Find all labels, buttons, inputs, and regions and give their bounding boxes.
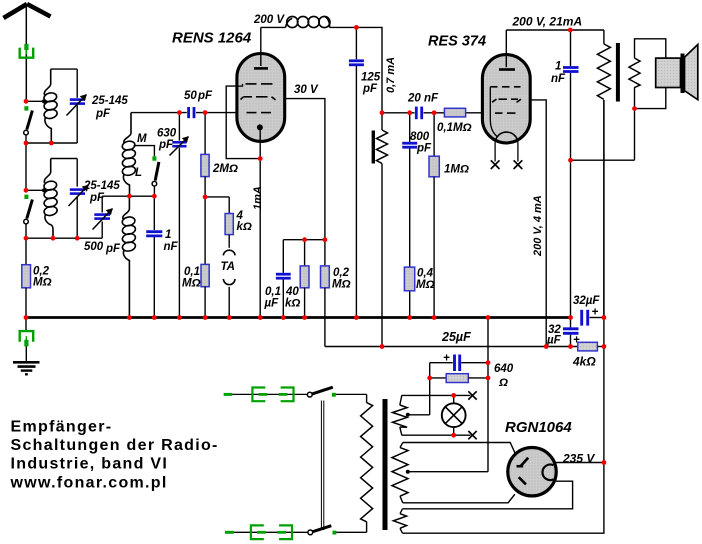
HV winding [400, 443, 403, 448]
switch S2 arm [27, 200, 33, 219]
wire antenna junction to coil1 tap [26, 100, 44, 102]
output transformer core [616, 43, 620, 102]
coil detector secondary [121, 196, 136, 317]
svg-text:4kΩ: 4kΩ [572, 355, 596, 369]
svg-text:pF: pF [105, 243, 121, 255]
tube RGN1064 envelope [508, 448, 556, 496]
svg-text:MΩ: MΩ [332, 279, 351, 291]
RES anode bar [499, 68, 515, 71]
wire bus to ground socket [25, 318, 27, 331]
resistor 0.2Mohm screen [324, 240, 326, 266]
svg-text:200 V: 200 V [253, 14, 285, 26]
mains plug row1 (green) [252, 388, 293, 402]
svg-text:MΩ: MΩ [182, 278, 201, 290]
x mark lamp top [468, 391, 476, 399]
capacitor 125pF [355, 27, 357, 59]
wire secondary top to speaker [635, 39, 666, 58]
wire S3 to node [153, 186, 155, 196]
svg-text:32µF: 32µF [573, 295, 600, 307]
svg-text:20 nF: 20 nF [407, 93, 439, 105]
wire S1 to node [25, 135, 27, 143]
wire 200V rail RENS [261, 26, 286, 28]
svg-text:1: 1 [165, 229, 171, 241]
mains input row1 green stub [224, 393, 233, 396]
node line y196 [102, 195, 154, 197]
wire circuit2 bottom line [26, 237, 102, 239]
RENS cathode lead [259, 130, 261, 318]
resistor 0.1Mohm coupling [444, 108, 465, 117]
svg-text:pF: pF [416, 143, 432, 155]
wire row1 to transformer [336, 393, 367, 395]
svg-text:+: + [592, 307, 599, 319]
svg-text:pF: pF [158, 139, 174, 151]
capacitor 630pF variable [178, 113, 180, 141]
svg-text:kΩ: kΩ [237, 221, 252, 233]
capacitor 500pF [101, 222, 103, 239]
svg-text:nF: nF [164, 241, 179, 253]
HV winding center tap [406, 470, 410, 474]
RES filament legs [494, 143, 496, 162]
wire 1nF down to bus [570, 160, 572, 317]
wire M/L tap [134, 146, 155, 157]
capacitor 0.1uF [282, 240, 284, 273]
lamp bottom line [402, 434, 471, 436]
svg-text:50: 50 [184, 90, 197, 102]
RES grid row C [495, 112, 516, 114]
RENS grid row A [237, 84, 243, 86]
svg-text:200 V, 21mA: 200 V, 21mA [512, 15, 583, 29]
resistor 0.4Mohm [404, 267, 414, 291]
svg-text:kΩ: kΩ [285, 298, 300, 310]
svg-text:1: 1 [555, 61, 561, 73]
svg-text:640: 640 [494, 363, 514, 375]
svg-text:TA: TA [221, 261, 235, 273]
ground socket (green) [20, 331, 34, 346]
tube RENS1264 envelope [237, 54, 285, 142]
tuned circuit 2: top wire [51, 158, 77, 160]
svg-text:25-145: 25-145 [91, 95, 128, 107]
antenna [4, 4, 51, 18]
wire circuit1 bottom [26, 142, 77, 144]
wire resistor to ground bus [25, 288, 27, 318]
node coil2 tap [42, 188, 46, 192]
capacitor 25uF [430, 362, 453, 364]
svg-text:pF: pF [362, 83, 378, 95]
coil M/L [121, 113, 136, 197]
capacitor 1nF output [570, 30, 572, 66]
lamp top line [402, 394, 471, 396]
svg-text:0,1: 0,1 [265, 286, 281, 298]
tube RES374 envelope [482, 55, 530, 143]
RGN anode notch [542, 465, 553, 481]
choke RF [286, 16, 331, 27]
second bus 200V [325, 346, 578, 348]
svg-text:630: 630 [157, 128, 177, 140]
switch S3 contact (green) [152, 156, 156, 160]
wire anode coupling line y112.8 [382, 112, 415, 114]
speaker magnet bar [681, 54, 685, 94]
dial lamp [453, 395, 455, 403]
svg-text:800: 800 [410, 131, 430, 143]
variable capacitor C1 25-145pF [76, 69, 78, 98]
wire RENS screen 30V [285, 99, 325, 240]
coil L2 [43, 159, 58, 239]
antenna socket (green) [20, 44, 34, 58]
x mark filament right [514, 160, 523, 169]
wire bias line x488 [487, 318, 489, 472]
svg-text:µF: µF [264, 298, 280, 310]
power transformer core [383, 399, 388, 530]
svg-text:0,2: 0,2 [333, 267, 350, 279]
switch mains top [307, 392, 312, 397]
resistor 4kohm feed [578, 342, 598, 351]
wire HV bottom to RGN [403, 494, 515, 503]
svg-text:2MΩ: 2MΩ [212, 163, 238, 175]
wire choke to corner [330, 27, 383, 112]
wire TA to bus [228, 287, 230, 318]
svg-text:RENS 1264: RENS 1264 [172, 30, 252, 47]
RENS grid row C [247, 112, 272, 114]
svg-text:MΩ: MΩ [33, 277, 52, 289]
x mark filament left [491, 160, 500, 169]
svg-text:M: M [137, 133, 147, 145]
wire link y160 [571, 159, 635, 161]
RENS anode lead [260, 27, 262, 66]
capacitor 20nF [416, 107, 421, 120]
node coil1 tap [42, 99, 46, 103]
resistor 40kohm [304, 240, 306, 266]
RES anode lead [505, 30, 507, 67]
switch mains bottom [308, 530, 313, 535]
filament winding [400, 509, 403, 514]
mains input row2 green stub [225, 531, 234, 534]
ground (earth symbol) [13, 362, 40, 374]
svg-text:25-145: 25-145 [83, 180, 120, 192]
wire S2 to bottom line [25, 224, 27, 238]
RENS grid row B (screen) [241, 97, 276, 100]
variable capacitor C2 25-145pF [76, 159, 78, 187]
wire row2 [234, 531, 308, 533]
wire speaker bottom [635, 88, 666, 109]
wire RES anode to rail [506, 29, 604, 31]
svg-text:L: L [135, 167, 142, 179]
wire RGN 235V output [556, 462, 604, 464]
potentiometer anode load (bar + zigzag) [381, 113, 383, 130]
wire lamp winding tap [408, 414, 430, 416]
svg-text:0,1: 0,1 [184, 266, 200, 278]
svg-text:pF: pF [197, 90, 213, 102]
svg-text:25µF: 25µF [441, 330, 471, 344]
wire left rail between circuits [25, 143, 27, 190]
mains plug row2 (green) [251, 525, 292, 539]
svg-text:200 V, 4 mA: 200 V, 4 mA [532, 195, 544, 257]
wire left rail to resistor [25, 238, 27, 265]
svg-text:0,4: 0,4 [417, 268, 434, 280]
resistor 0.2Mohm antenna [22, 265, 31, 288]
wire row1 [232, 393, 307, 395]
capacitor 50pF [189, 107, 194, 118]
wire filament top to RGN [403, 481, 573, 509]
switch S1 contact (green) [24, 106, 28, 110]
wire RENS gridA return [226, 86, 260, 159]
switch S1 arm [27, 111, 33, 130]
footer text [10, 419, 219, 492]
wire to coil2 tap [26, 189, 44, 191]
wire filament bottom to 235V [403, 100, 604, 533]
capacitor 32uF no2 [570, 318, 572, 328]
svg-text:Industrie, band VI: Industrie, band VI [11, 456, 169, 473]
svg-text:nF: nF [551, 73, 566, 85]
switch S2 contact (green) [24, 195, 28, 199]
svg-text:1MΩ: 1MΩ [444, 164, 469, 176]
RES grid row B (screen) [492, 99, 521, 102]
svg-text:RGN1064: RGN1064 [505, 419, 572, 436]
power transformer primary [366, 394, 368, 402]
ground bus (thick) [26, 316, 572, 319]
svg-text:RES 374: RES 374 [428, 34, 486, 50]
svg-text:Ω: Ω [498, 377, 508, 389]
resistor 1Mohm [433, 113, 435, 156]
headphone TA [223, 250, 235, 255]
capacitor 800pF [409, 113, 411, 142]
RES grid A to filament link [490, 87, 497, 137]
x mark lamp bottom [468, 431, 476, 439]
wire row2 to transformer [336, 531, 366, 533]
wire speaker return down [634, 109, 636, 161]
wire anode-load node [205, 196, 229, 198]
tuned circuit 1: top wire [51, 68, 77, 70]
RENS anode bar [254, 67, 268, 70]
svg-text:Schaltungen der Radio-: Schaltungen der Radio- [11, 437, 219, 454]
resistor 4kohm [228, 197, 230, 214]
resistor 0.1Mohm [204, 197, 206, 265]
wire HV top to RGN [403, 443, 516, 456]
switch S3 arm [155, 162, 159, 181]
wire secondary bottom [634, 87, 636, 108]
svg-text:MΩ: MΩ [416, 279, 435, 291]
svg-text:500: 500 [84, 241, 104, 253]
RGN filament marks [517, 465, 524, 468]
svg-text:40: 40 [285, 286, 299, 298]
RES filament arc [495, 132, 518, 143]
resistor 2Mohm grid leak [204, 113, 206, 155]
wire antenna lead down [25, 5, 27, 101]
switch linkage [320, 401, 322, 531]
svg-text:0,7 mA: 0,7 mA [385, 57, 397, 93]
wire 640 left vertical [429, 363, 431, 415]
svg-text:30 V: 30 V [294, 84, 319, 96]
output transformer secondary [629, 58, 640, 87]
svg-text:µF: µF [546, 335, 562, 347]
wire RES screen to 200V [530, 100, 546, 347]
wire socket to earth [25, 346, 27, 361]
wire screen decoupling node [283, 239, 325, 241]
coil L1 [43, 69, 58, 143]
svg-text:0,1MΩ: 0,1MΩ [437, 122, 472, 134]
RENS cathode dot [257, 124, 263, 130]
svg-text:pF: pF [95, 108, 111, 120]
svg-text:235 V: 235 V [562, 451, 595, 465]
svg-text:www.fonar.com.pl: www.fonar.com.pl [10, 475, 168, 492]
output transformer primary [603, 30, 605, 44]
svg-text:1mA: 1mA [252, 186, 264, 210]
svg-text:125: 125 [361, 72, 381, 84]
svg-text:Empfänger-: Empfänger- [11, 419, 113, 436]
resistor 640ohm [430, 377, 447, 379]
wire grid line RENS [131, 112, 187, 114]
lamp winding [400, 395, 402, 405]
capacitor 1nF detector [153, 196, 155, 230]
capacitor 32uF no1 [582, 310, 588, 326]
RES grid row A [490, 86, 520, 88]
speaker body [656, 58, 681, 87]
speaker cone [685, 45, 698, 100]
svg-text:+: + [443, 353, 450, 365]
